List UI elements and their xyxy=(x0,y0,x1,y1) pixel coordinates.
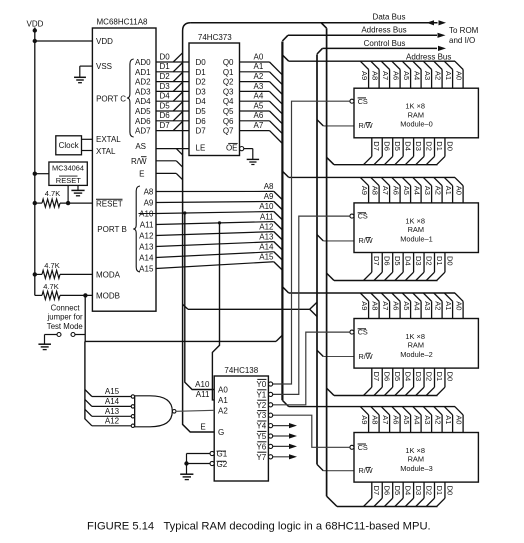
svg-text:D3: D3 xyxy=(414,486,423,496)
svg-text:Y0: Y0 xyxy=(256,380,266,389)
svg-text:Q0: Q0 xyxy=(223,58,234,67)
svg-text:A15: A15 xyxy=(105,387,120,396)
svg-text:EXTAL: EXTAL xyxy=(96,135,121,144)
svg-text:D4: D4 xyxy=(160,92,171,101)
svg-text:D1: D1 xyxy=(160,62,171,71)
svg-text:MC34064: MC34064 xyxy=(52,164,84,173)
svg-text:D1: D1 xyxy=(196,68,207,77)
svg-text:AD3: AD3 xyxy=(135,87,151,96)
svg-text:AD5: AD5 xyxy=(135,107,151,116)
svg-text:A6: A6 xyxy=(392,415,401,424)
svg-text:A1: A1 xyxy=(254,62,264,71)
svg-text:A9: A9 xyxy=(360,415,369,424)
svg-text:Y6: Y6 xyxy=(256,442,266,451)
svg-text:XTAL: XTAL xyxy=(96,147,116,156)
svg-text:Address Bus: Address Bus xyxy=(406,52,451,61)
svg-text:D4: D4 xyxy=(403,256,412,266)
svg-text:D2: D2 xyxy=(424,256,433,266)
svg-text:E: E xyxy=(139,170,144,179)
svg-text:Address Bus: Address Bus xyxy=(361,26,406,35)
svg-text:Module–1: Module–1 xyxy=(400,234,432,243)
svg-text:A3: A3 xyxy=(423,415,432,424)
svg-text:D2: D2 xyxy=(424,486,433,496)
svg-text:A7: A7 xyxy=(254,121,264,130)
svg-text:D7: D7 xyxy=(196,127,207,136)
svg-text:D0: D0 xyxy=(445,486,454,496)
svg-text:D7: D7 xyxy=(372,372,381,382)
svg-text:A0: A0 xyxy=(218,386,228,395)
svg-text:A3: A3 xyxy=(423,301,432,310)
svg-text:Connect: Connect xyxy=(51,303,81,312)
svg-text:D4: D4 xyxy=(403,141,412,151)
svg-text:A8: A8 xyxy=(371,186,380,195)
svg-text:D6: D6 xyxy=(196,117,207,126)
svg-text:VDD: VDD xyxy=(96,37,113,46)
svg-text:Y1: Y1 xyxy=(256,390,266,399)
svg-text:AD4: AD4 xyxy=(135,97,151,106)
svg-text:A8: A8 xyxy=(371,301,380,310)
svg-text:D5: D5 xyxy=(393,372,402,382)
svg-text:MC68HC11A8: MC68HC11A8 xyxy=(97,18,149,27)
svg-text:D2: D2 xyxy=(196,78,207,87)
svg-text:A9: A9 xyxy=(360,301,369,310)
svg-text:D5: D5 xyxy=(393,486,402,496)
svg-text:D3: D3 xyxy=(414,256,423,266)
svg-text:R/W: R/W xyxy=(131,157,147,166)
svg-text:A15: A15 xyxy=(259,252,274,261)
svg-text:D3: D3 xyxy=(196,87,207,96)
svg-text:D6: D6 xyxy=(383,372,392,382)
svg-text:RAM: RAM xyxy=(408,110,424,119)
svg-text:A5: A5 xyxy=(402,71,411,80)
svg-text:D5: D5 xyxy=(160,101,171,110)
svg-text:Q7: Q7 xyxy=(223,127,234,136)
svg-text:AS: AS xyxy=(135,142,146,151)
svg-text:A2: A2 xyxy=(434,71,443,80)
svg-text:A1: A1 xyxy=(444,301,453,310)
svg-text:LE: LE xyxy=(196,143,206,152)
svg-text:VDD: VDD xyxy=(27,19,44,28)
svg-text:E: E xyxy=(200,423,205,432)
svg-text:Control Bus: Control Bus xyxy=(364,39,406,48)
svg-text:A10: A10 xyxy=(195,380,210,389)
svg-text:A11: A11 xyxy=(196,390,210,399)
svg-text:A2: A2 xyxy=(254,72,264,81)
svg-text:A9: A9 xyxy=(360,71,369,80)
svg-text:Y4: Y4 xyxy=(256,422,266,431)
svg-text:RAM: RAM xyxy=(408,341,424,350)
svg-text:74HC138: 74HC138 xyxy=(224,366,258,375)
svg-text:A0: A0 xyxy=(455,415,464,424)
svg-text:D1: D1 xyxy=(435,141,444,151)
svg-text:A14: A14 xyxy=(139,254,154,263)
svg-text:A6: A6 xyxy=(254,111,264,120)
svg-text:Y7: Y7 xyxy=(256,453,266,462)
svg-text:A2: A2 xyxy=(434,186,443,195)
svg-text:A7: A7 xyxy=(381,301,390,310)
svg-text:A7: A7 xyxy=(381,186,390,195)
svg-text:A1: A1 xyxy=(218,396,228,405)
svg-text:74HC373: 74HC373 xyxy=(198,33,232,42)
svg-text:A2: A2 xyxy=(218,406,228,415)
svg-text:A4: A4 xyxy=(413,415,422,424)
svg-text:D6: D6 xyxy=(160,111,171,120)
svg-text:A9: A9 xyxy=(144,199,154,208)
svg-text:A9: A9 xyxy=(264,192,274,201)
svg-text:Q1: Q1 xyxy=(223,68,234,77)
svg-text:MODB: MODB xyxy=(96,292,120,301)
svg-text:RESET: RESET xyxy=(56,176,81,185)
svg-text:A12: A12 xyxy=(259,222,274,231)
svg-text:RAM: RAM xyxy=(408,225,424,234)
svg-text:A2: A2 xyxy=(434,301,443,310)
svg-text:4.7K: 4.7K xyxy=(45,189,60,198)
svg-text:D6: D6 xyxy=(383,256,392,266)
svg-text:D3: D3 xyxy=(414,372,423,382)
svg-text:Y5: Y5 xyxy=(256,432,266,441)
svg-text:D3: D3 xyxy=(160,82,171,91)
svg-text:Module–3: Module–3 xyxy=(400,464,432,473)
svg-text:A15: A15 xyxy=(139,265,154,274)
svg-text:Q5: Q5 xyxy=(223,107,234,116)
svg-text:D1: D1 xyxy=(435,486,444,496)
svg-text:A4: A4 xyxy=(254,92,264,101)
svg-text:D1: D1 xyxy=(435,256,444,266)
svg-text:AD1: AD1 xyxy=(135,68,151,77)
svg-text:G: G xyxy=(218,428,224,437)
svg-text:A13: A13 xyxy=(139,243,154,252)
svg-text:AD6: AD6 xyxy=(135,117,151,126)
svg-text:AD2: AD2 xyxy=(135,78,151,87)
svg-text:Module–2: Module–2 xyxy=(400,350,432,359)
svg-text:A8: A8 xyxy=(144,188,154,197)
svg-text:D2: D2 xyxy=(160,72,171,81)
svg-text:Q3: Q3 xyxy=(223,87,234,96)
svg-text:D7: D7 xyxy=(372,256,381,266)
svg-text:Clock: Clock xyxy=(59,141,80,150)
svg-text:Q4: Q4 xyxy=(223,97,234,106)
svg-text:A2: A2 xyxy=(434,415,443,424)
svg-text:RESET: RESET xyxy=(96,200,123,209)
svg-text:D4: D4 xyxy=(403,486,412,496)
svg-text:A4: A4 xyxy=(413,71,422,80)
svg-text:and I/O: and I/O xyxy=(449,36,475,45)
svg-text:A8: A8 xyxy=(371,71,380,80)
svg-text:A6: A6 xyxy=(392,71,401,80)
svg-text:Q6: Q6 xyxy=(223,117,234,126)
svg-text:A5: A5 xyxy=(254,101,264,110)
svg-text:A1: A1 xyxy=(444,186,453,195)
svg-text:D6: D6 xyxy=(383,141,392,151)
svg-text:A7: A7 xyxy=(381,71,390,80)
svg-text:To ROM: To ROM xyxy=(449,26,479,35)
svg-text:A7: A7 xyxy=(381,415,390,424)
svg-text:A13: A13 xyxy=(259,232,274,241)
svg-text:D5: D5 xyxy=(196,107,207,116)
svg-text:A4: A4 xyxy=(413,186,422,195)
svg-text:D0: D0 xyxy=(445,141,454,151)
svg-text:A0: A0 xyxy=(455,301,464,310)
svg-text:RAM: RAM xyxy=(408,455,424,464)
svg-text:D6: D6 xyxy=(383,486,392,496)
svg-text:A12: A12 xyxy=(105,416,120,425)
svg-text:A10: A10 xyxy=(259,202,274,211)
svg-text:A0: A0 xyxy=(455,186,464,195)
svg-text:D4: D4 xyxy=(196,97,207,106)
svg-text:A5: A5 xyxy=(402,186,411,195)
svg-text:PORT C: PORT C xyxy=(96,94,126,103)
svg-text:A8: A8 xyxy=(371,415,380,424)
svg-text:D1: D1 xyxy=(435,372,444,382)
svg-text:4.7K: 4.7K xyxy=(43,282,58,291)
svg-text:D2: D2 xyxy=(424,141,433,151)
svg-text:A8: A8 xyxy=(264,182,274,191)
svg-text:A3: A3 xyxy=(254,82,264,91)
svg-text:Y2: Y2 xyxy=(256,401,266,410)
svg-text:AD0: AD0 xyxy=(135,58,151,67)
svg-text:jumper for: jumper for xyxy=(47,313,84,322)
svg-text:MODA: MODA xyxy=(96,271,121,280)
svg-text:FIGURE 5.14 Typical RAM deco: FIGURE 5.14 Typical RAM decoding logic i… xyxy=(87,521,431,533)
svg-text:4.7K: 4.7K xyxy=(44,261,59,270)
svg-text:D7: D7 xyxy=(372,486,381,496)
svg-text:D0: D0 xyxy=(196,58,207,67)
svg-text:Data Bus: Data Bus xyxy=(373,13,406,22)
svg-text:PORT B: PORT B xyxy=(97,225,127,234)
svg-text:AD7: AD7 xyxy=(135,127,151,136)
svg-text:D5: D5 xyxy=(393,141,402,151)
svg-text:D7: D7 xyxy=(160,121,171,130)
svg-text:A6: A6 xyxy=(392,301,401,310)
svg-text:A6: A6 xyxy=(392,186,401,195)
svg-text:Q2: Q2 xyxy=(223,78,234,87)
svg-text:A1: A1 xyxy=(444,415,453,424)
svg-text:D0: D0 xyxy=(445,372,454,382)
svg-text:D0: D0 xyxy=(445,256,454,266)
svg-text:D7: D7 xyxy=(372,141,381,151)
svg-text:A5: A5 xyxy=(402,301,411,310)
svg-text:A14: A14 xyxy=(259,242,274,251)
svg-text:Y3: Y3 xyxy=(256,411,266,420)
svg-text:A5: A5 xyxy=(402,415,411,424)
svg-text:A3: A3 xyxy=(423,186,432,195)
svg-text:A13: A13 xyxy=(105,407,120,416)
svg-text:A11: A11 xyxy=(140,221,154,230)
svg-text:A1: A1 xyxy=(444,71,453,80)
svg-text:OE: OE xyxy=(226,143,238,152)
svg-text:D2: D2 xyxy=(424,372,433,382)
svg-text:A12: A12 xyxy=(139,232,154,241)
svg-text:A0: A0 xyxy=(254,52,264,61)
svg-text:D5: D5 xyxy=(393,256,402,266)
svg-text:Test Mode: Test Mode xyxy=(47,322,83,331)
svg-text:A4: A4 xyxy=(413,301,422,310)
svg-text:D0: D0 xyxy=(160,52,171,61)
svg-text:Module–0: Module–0 xyxy=(400,120,432,129)
svg-text:A11: A11 xyxy=(260,212,274,221)
svg-text:A3: A3 xyxy=(423,71,432,80)
svg-text:A0: A0 xyxy=(455,71,464,80)
svg-text:A14: A14 xyxy=(105,397,120,406)
svg-text:D3: D3 xyxy=(414,141,423,151)
svg-text:D4: D4 xyxy=(403,372,412,382)
svg-text:A9: A9 xyxy=(360,186,369,195)
svg-text:VSS: VSS xyxy=(96,62,112,71)
